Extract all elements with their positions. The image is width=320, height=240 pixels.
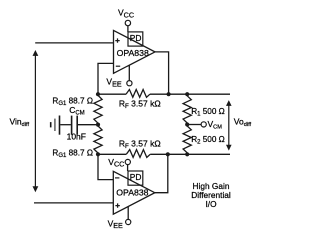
resistor R1 500: [183, 96, 191, 123]
power VCC pin of U1: [127, 26, 129, 32]
op-amp U2 PD box: [128, 171, 143, 185]
svg-text:R2 500 Ω: R2 500 Ω: [191, 135, 225, 146]
op-amp U2 + input mark: [115, 203, 119, 207]
op-amp U2 - input mark: [115, 177, 119, 179]
svg-text:OPA838: OPA838: [117, 48, 149, 58]
node summing junction top: [96, 92, 100, 96]
op-amp U1 - input mark: [116, 65, 120, 67]
svg-text:R1 500 Ω: R1 500 Ω: [191, 107, 225, 118]
wire bottom output rail: [150, 153, 230, 155]
terminal VCM: [201, 122, 206, 127]
wire bottom noninverting input: [34, 202, 113, 204]
wire capacitor leads: [60, 124, 71, 126]
wire U1 output to rail: [155, 52, 169, 94]
node VCM tap: [185, 122, 189, 126]
svg-text:PD: PD: [130, 172, 142, 182]
resistor R2 500: [183, 126, 191, 153]
wire summing node to U2 inverting input: [98, 154, 113, 179]
svg-text:10nF: 10nF: [67, 131, 86, 141]
node R1 top junction: [185, 92, 189, 96]
resistor RF (bottom) 3.57k: [98, 153, 126, 155]
op-amp U2 OPA838 (bottom): [113, 171, 155, 214]
wire top noninverting input: [35, 42, 113, 44]
op-amp U1 OPA838 (top): [114, 30, 156, 73]
node RG midpoint: [96, 123, 100, 127]
svg-text:PD: PD: [130, 33, 142, 43]
node U2 output junction: [166, 152, 170, 156]
node Vo_diff annotation arrow: [226, 100, 232, 151]
svg-text:I/O: I/O: [205, 199, 217, 209]
power VEE pin of U2: [127, 206, 129, 219]
wire U2 output to rail: [155, 154, 168, 192]
node U1 output junction: [167, 92, 171, 96]
svg-text:OPA838: OPA838: [116, 187, 148, 197]
resistor RG1 (bottom): [94, 126, 102, 153]
capacitor CCM: [51, 116, 77, 135]
wire VCM tap: [187, 124, 201, 126]
power VCC pin of U2: [127, 165, 129, 171]
op-amp U1 + input mark: [115, 38, 119, 42]
resistor RF (top) 3.57k: [98, 93, 126, 95]
wire U1 inverting input to summing node: [98, 63, 114, 94]
node summing junction bottom: [96, 152, 100, 156]
node Vin_diff annotation arrow: [33, 50, 39, 192]
resistor RG1 (top): [94, 95, 102, 123]
power VEE pin of U1: [128, 65, 130, 80]
node R2 bottom junction: [185, 152, 189, 156]
op-amp U1 PD box: [128, 32, 143, 46]
wire top output rail: [150, 93, 230, 95]
